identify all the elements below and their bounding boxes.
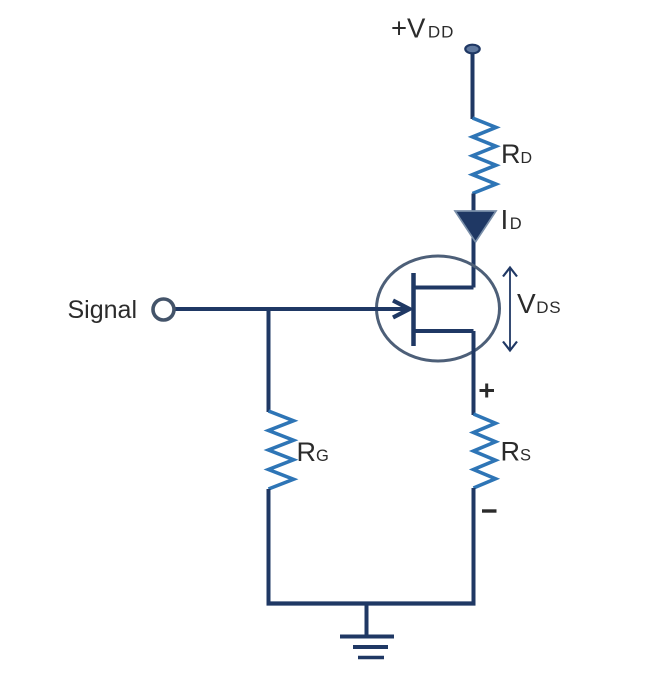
svg-text:Signal: Signal: [68, 296, 138, 324]
transistor Q1 source lead: [412, 329, 474, 333]
transistor Q1 body circle: [377, 256, 500, 361]
resistor RS: [474, 414, 496, 488]
node VDD terminal dot: [465, 45, 479, 54]
svg-text:+VDD: +VDD: [391, 13, 454, 44]
wire RS to bottom rail: [472, 488, 476, 604]
voltage arrow VDS (double-headed): [503, 268, 517, 351]
transistor Q1 drain lead: [412, 286, 474, 290]
plus sign (RS top): [480, 384, 495, 398]
wire bottom rail: [267, 601, 476, 605]
transistor Q1 channel bar: [411, 273, 416, 346]
svg-text:RS: RS: [501, 437, 532, 467]
wire signal to gate: [174, 307, 407, 311]
wire VDD to RD: [471, 53, 475, 119]
svg-text:RD: RD: [501, 139, 532, 169]
gate arrowhead: [393, 301, 410, 318]
terminal Signal (open circle): [153, 299, 174, 320]
wire RG to bottom rail: [267, 489, 271, 604]
wire RD to drain: [472, 194, 476, 288]
svg-text:RG: RG: [297, 437, 329, 467]
svg-text:ID: ID: [501, 204, 522, 235]
ground: [340, 604, 394, 658]
wire source to RS: [472, 331, 476, 415]
svg-text:VDS: VDS: [517, 288, 561, 319]
current arrow ID (triangle): [455, 211, 496, 242]
minus sign (RS bottom): [482, 509, 497, 512]
wire gate node down to RG: [267, 309, 271, 412]
resistor RG: [269, 411, 294, 489]
resistor RD: [473, 118, 497, 194]
